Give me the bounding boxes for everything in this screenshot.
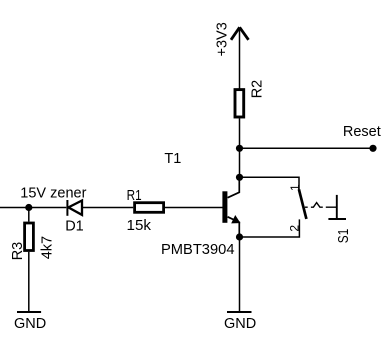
svg-text:GND: GND xyxy=(14,316,46,332)
junction emitter node xyxy=(236,233,243,240)
switch S1 button plunger xyxy=(336,195,338,220)
wire R2 to collector node xyxy=(239,119,241,178)
wire collector node to switch pin 1 xyxy=(240,177,300,189)
svg-text:15k: 15k xyxy=(127,218,152,234)
wire R3 to GND xyxy=(28,252,30,312)
svg-text:T1: T1 xyxy=(164,151,181,167)
diode D1 cathode bar xyxy=(66,200,68,216)
svg-text:Reset: Reset xyxy=(343,124,381,140)
wire base (R1 to T1) xyxy=(165,207,223,209)
switch S1 lever xyxy=(299,189,307,219)
diode D1 triangle xyxy=(68,201,82,215)
switch S1 spring dashes xyxy=(305,203,337,208)
svg-text:2: 2 xyxy=(287,225,301,232)
resistor R3 xyxy=(25,223,34,251)
power +3V3 arrow xyxy=(231,27,249,40)
wire left input xyxy=(0,207,66,209)
svg-text:GND: GND xyxy=(224,316,256,332)
junction collector node xyxy=(236,174,243,181)
svg-text:R1: R1 xyxy=(127,188,142,204)
resistor R1 xyxy=(135,203,164,213)
svg-text:PMBT3904: PMBT3904 xyxy=(161,242,235,258)
resistor R2 xyxy=(235,90,244,117)
switch S1 button plate xyxy=(328,218,346,220)
transistor T1 base bar xyxy=(222,191,227,223)
node Reset endpoint xyxy=(369,145,376,152)
svg-text:S1: S1 xyxy=(336,229,352,244)
transistor T1 emitter lead xyxy=(228,217,240,237)
svg-text:+3V3: +3V3 xyxy=(215,22,231,56)
transistor T1 collector lead xyxy=(228,177,240,197)
ground left xyxy=(17,311,41,313)
wire D1 to R1 xyxy=(82,207,133,209)
wire emitter node to switch pin 2 xyxy=(240,219,300,237)
svg-text:4k7: 4k7 xyxy=(39,236,55,259)
svg-text:15V zener: 15V zener xyxy=(20,185,86,201)
transistor T1 emitter arrowhead xyxy=(232,216,240,223)
svg-text:R3: R3 xyxy=(10,242,26,261)
junction R3 tap xyxy=(25,204,32,211)
junction Reset tap xyxy=(236,145,243,152)
svg-text:R2: R2 xyxy=(249,80,265,99)
wire emitter node to GND xyxy=(239,237,241,312)
wire +3V3 arrow to R2 xyxy=(239,28,241,89)
svg-text:D1: D1 xyxy=(65,218,84,234)
wire junction to R3 xyxy=(28,208,30,222)
wire Reset net xyxy=(240,147,374,149)
svg-text:1: 1 xyxy=(288,184,302,191)
ground right xyxy=(227,311,252,313)
